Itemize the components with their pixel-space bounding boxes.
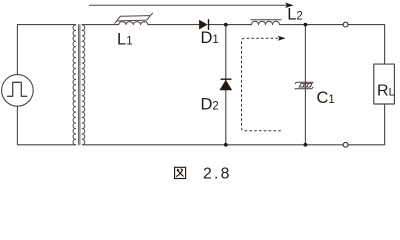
wire: top rail, L2 to right corner [280, 24, 385, 26]
wire: top rail, L1 to D1 [148, 24, 199, 26]
wire: right side down to RL [384, 25, 386, 65]
dashed current loop with arrow [242, 36, 286, 131]
pulse source V1 [2, 75, 34, 107]
node: D2 top junction [224, 23, 228, 27]
transformer T1 core [79, 25, 80, 145]
terminal (top, open circle) [343, 22, 348, 27]
wire: bottom rail [83, 144, 385, 146]
inductor L1 [119, 22, 148, 25]
svg-text:D2: D2 [201, 96, 219, 114]
svg-text:L2: L2 [287, 5, 303, 23]
terminal (bottom, open circle) [343, 142, 348, 147]
wire: source top to transformer primary [17, 25, 75, 75]
wire: diode D2 branch [225, 25, 227, 145]
wire: top rail, D1 to L2 [208, 24, 251, 26]
wire: capacitor C1 branch [304, 25, 306, 145]
capacitor C1 [295, 82, 314, 89]
wire: source bottom to transformer primary [17, 106, 75, 145]
transformer T1 primary winding [73, 25, 76, 145]
wire: top rail, secondary to L1 [82, 24, 118, 26]
svg-text:C1: C1 [317, 89, 335, 107]
wire: RL bottom to bottom rail [384, 104, 386, 145]
node: L2 output junction [304, 23, 308, 27]
svg-text:D1: D1 [201, 29, 219, 47]
svg-text:RL: RL [377, 83, 395, 100]
current direction arrow (top) [89, 3, 294, 8]
node: D2 bottom junction [224, 143, 228, 147]
diode D1 [199, 19, 208, 30]
transformer T1 secondary winding [82, 25, 85, 145]
variable core symbol above L1 [115, 13, 153, 23]
node: C1 bottom junction [304, 143, 308, 147]
resistor RL (box) [374, 64, 395, 104]
svg-text:2.8: 2.8 [203, 165, 232, 182]
core line above L2 [251, 19, 282, 21]
inductor L2 [252, 21, 280, 24]
caption: 図 (drawn glyph) [175, 167, 186, 178]
svg-text:L1: L1 [117, 30, 133, 48]
diode D2 [219, 79, 232, 90]
